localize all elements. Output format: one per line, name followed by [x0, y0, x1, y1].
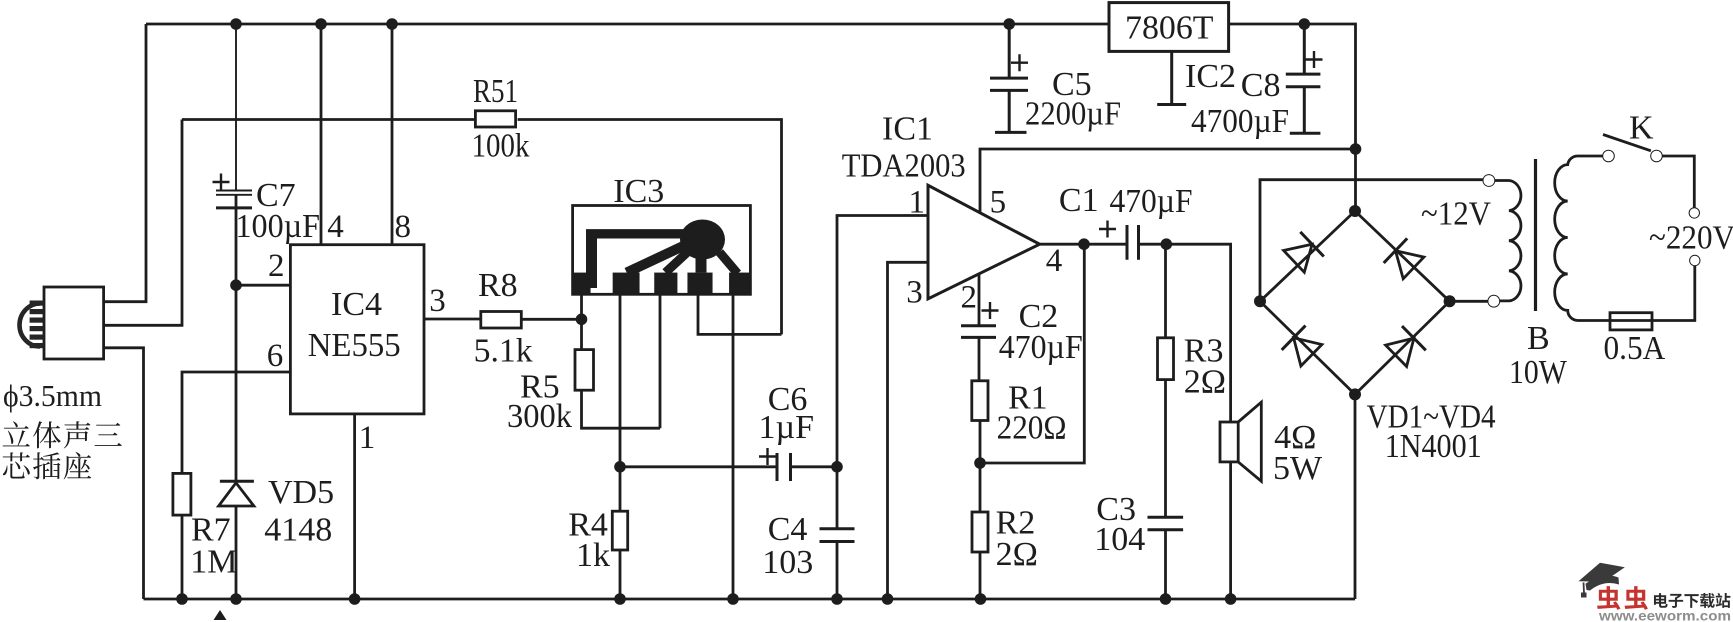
node pin8 bus junction: [386, 18, 398, 30]
wire pin6 to R7 top: [182, 372, 290, 473]
wire bridge edges: [1260, 211, 1450, 394]
label xin-cha-zuo (core socket): [3, 452, 30, 478]
wire +V top bus (right of 7806T) down to bridge + corner: [1229, 24, 1356, 211]
wire IC2 ground pin: [1157, 51, 1186, 104]
node R2 ground junction: [975, 593, 987, 605]
node output/feedback junction: [1078, 238, 1090, 250]
svg-text:103: 103: [762, 544, 813, 581]
svg-text:2200µF: 2200µF: [1025, 96, 1121, 133]
node pin2/C7/VD5 junction: [230, 279, 242, 291]
svg-text:2Ω: 2Ω: [996, 536, 1038, 573]
resistor R7 1M: [173, 473, 191, 515]
svg-text:www.eeworm.com: www.eeworm.com: [1598, 609, 1731, 622]
transformer B secondary winding: [1495, 181, 1521, 301]
svg-text:1k: 1k: [576, 537, 610, 574]
node C5 bus junction: [1003, 18, 1015, 30]
wire IC3 pin1 to R8 node: [580, 294, 583, 319]
node pin5 supply junction: [1350, 143, 1362, 155]
IC3 bonding trace left drop: [586, 230, 597, 288]
wire feedback link: [980, 244, 1084, 463]
C5 plus polarity mark: [1011, 54, 1028, 71]
IC3 pad 1: [574, 273, 591, 293]
svg-text:B: B: [1527, 320, 1550, 357]
watermark graduation cap: [1579, 563, 1625, 582]
transformer B primary winding: [1555, 156, 1610, 321]
wire IC3 pin4 bend to R51 drop: [698, 294, 782, 334]
resistor R3 2ohm: [1158, 338, 1174, 380]
svg-text:5.1k: 5.1k: [474, 333, 533, 370]
fuse 0.5A body: [1610, 313, 1652, 330]
node bridge right AC corner: [1444, 295, 1456, 307]
IC3 chip blob: [680, 220, 725, 260]
wire speaker to ground: [1229, 462, 1232, 599]
wire mains lower terminal to fuse: [1652, 266, 1695, 321]
svg-text:3: 3: [429, 283, 446, 319]
ground reference tick: [214, 610, 227, 620]
wire C4 to ground: [836, 542, 839, 600]
diode VD1 (left-top arm): [1284, 244, 1313, 272]
switch K terminal left: [1603, 150, 1615, 162]
svg-text:10W: 10W: [1509, 354, 1568, 391]
IC3 bonding trace to pad4: [696, 258, 707, 273]
resistor R2 2ohm: [972, 512, 988, 552]
wire pin3 to ground: [888, 262, 929, 599]
svg-text:300k: 300k: [507, 398, 572, 435]
wire pin3 to R8: [424, 318, 480, 321]
wire R5 bottom to pin3 link: [582, 390, 661, 428]
resistor R51 100k: [475, 111, 515, 127]
regulator IC2 7806T box: [1109, 3, 1229, 52]
svg-text:470µF: 470µF: [1110, 183, 1193, 220]
svg-text:C4: C4: [768, 511, 808, 548]
wire C1 to speaker drop: [1139, 244, 1231, 422]
wire pin2 stub: [236, 284, 290, 287]
svg-text:4700µF: 4700µF: [1191, 103, 1289, 140]
wire pin8 to +V bus: [391, 24, 394, 245]
node pin4 bus junction: [315, 18, 327, 30]
wire C6 left lead: [620, 465, 777, 468]
svg-text:~12V: ~12V: [1421, 195, 1491, 232]
audio jack J1 3.5mm socket body: [44, 287, 104, 359]
node C8 bus junction: [1299, 18, 1311, 30]
wire IC3 pin3 drop: [659, 294, 662, 428]
op IC4 NE555 timer box: [290, 245, 424, 414]
svg-text:1M: 1M: [190, 544, 237, 581]
svg-text:3: 3: [906, 275, 923, 311]
IC3 bonding trace to pad5: [720, 252, 738, 273]
wire bridge right to transformer secondary bottom: [1450, 300, 1488, 303]
svg-text:470µF: 470µF: [999, 329, 1083, 366]
svg-text:IC4: IC4: [331, 286, 382, 323]
transformer B secondary terminal top: [1483, 175, 1495, 187]
IC3 pad 5: [729, 273, 749, 293]
wire R4 to ground: [619, 550, 622, 599]
wire ground bus: [144, 598, 1356, 601]
wire R8 to IC3 pin1 node: [522, 318, 582, 321]
svg-text:TDA2003: TDA2003: [842, 148, 966, 185]
capacitor C8 4700uF electrolytic: [1286, 24, 1321, 133]
svg-text:6: 6: [267, 338, 284, 374]
svg-text:~220V: ~220V: [1649, 220, 1733, 257]
svg-text:IC2: IC2: [1185, 58, 1236, 95]
wire output pin4 to C1: [1040, 243, 1127, 246]
IC3 bonding trace to pad3: [666, 249, 691, 272]
node R1/R2/feedback junction: [974, 457, 986, 469]
svg-text:2: 2: [961, 280, 978, 316]
wire pin4 to +V bus: [320, 24, 323, 245]
watermark chongchong red: [1597, 586, 1620, 610]
node R7 ground junction: [176, 593, 188, 605]
speaker LS 4ohm 5W: [1220, 422, 1238, 462]
wire C3 to ground: [1164, 530, 1167, 599]
svg-text:1: 1: [909, 185, 926, 221]
svg-text:IC3: IC3: [613, 173, 664, 210]
wire bridge left to transformer secondary top: [1260, 180, 1483, 302]
node IC3 pin5 ground junction: [727, 593, 739, 605]
wire switch to mains upper terminal: [1662, 156, 1694, 208]
node bridge left AC corner: [1254, 295, 1266, 307]
svg-text:1µF: 1µF: [759, 409, 815, 446]
diode VD2 (right-top arm): [1396, 251, 1424, 279]
wire jack sleeve to ground: [104, 348, 144, 599]
wire R3 top lead: [1164, 244, 1167, 338]
wire C4 top lead: [836, 467, 839, 529]
C6 plus polarity mark: [759, 448, 776, 465]
node C3 ground junction: [1160, 593, 1172, 605]
C8 plus polarity mark: [1306, 51, 1323, 68]
node C6/C4/pin1 junction: [831, 461, 843, 473]
resistor R1 220ohm: [972, 381, 988, 421]
audio jack plug sleeve: [19, 304, 40, 347]
transformer B core: [1534, 159, 1537, 311]
wire +V top bus (left of 7806T): [146, 23, 1109, 26]
svg-text:100µF: 100µF: [236, 208, 321, 245]
C1 plus polarity mark: [1099, 221, 1116, 238]
IC3 bonding trace horizontal: [586, 229, 688, 238]
svg-text:2: 2: [268, 248, 285, 284]
wire R51 to IC3 pin4 drop: [518, 120, 782, 335]
svg-text:5: 5: [990, 185, 1007, 221]
wire R2 to ground: [979, 552, 982, 599]
node bridge bottom (-) corner: [1349, 388, 1361, 400]
C7 plus polarity mark: [213, 174, 230, 191]
switch K lever: [1603, 135, 1651, 151]
wire pin1 input from C6 node: [837, 216, 928, 467]
svg-text:2Ω: 2Ω: [1184, 364, 1226, 401]
svg-text:R51: R51: [473, 73, 518, 110]
capacitor C3 104: [1148, 517, 1184, 530]
node C6 left junction: [614, 461, 626, 473]
wire jack ring to oscillator rail riser: [104, 120, 182, 326]
wire C6 right lead: [791, 465, 838, 468]
svg-text:C1: C1: [1059, 182, 1099, 219]
wire C2 to R1: [978, 337, 981, 380]
node C1/R3 junction: [1161, 238, 1173, 250]
svg-text:ϕ3.5mm: ϕ3.5mm: [3, 378, 102, 413]
svg-text:4148: 4148: [264, 511, 332, 548]
C2 plus polarity mark: [982, 302, 999, 319]
switch K terminal right: [1651, 150, 1663, 162]
mains terminal lower circle: [1690, 255, 1700, 265]
wire R2 top lead: [979, 463, 982, 512]
svg-text:1: 1: [359, 420, 376, 456]
op IC3 music chip box: [573, 206, 751, 295]
IC3 pad 3: [654, 273, 677, 293]
svg-text:104: 104: [1094, 521, 1145, 558]
capacitor C7 100uF electrolytic: [216, 24, 252, 195]
wire jack tip to +V vertical riser: [104, 24, 146, 302]
node C4 ground junction: [831, 593, 843, 605]
svg-text:0.5A: 0.5A: [1604, 330, 1666, 367]
svg-text:1N4001: 1N4001: [1385, 428, 1482, 465]
capacitor C1 470uF plates: [1127, 225, 1139, 260]
wire IC3 pin5 to ground: [732, 294, 735, 599]
wire VD5 cathode riser: [235, 285, 238, 482]
resistor R8 5.1k: [481, 312, 522, 329]
mains terminal upper circle: [1689, 208, 1699, 218]
resistor R5 300k: [575, 350, 594, 391]
svg-text:220Ω: 220Ω: [997, 410, 1067, 447]
svg-text:IC1: IC1: [882, 111, 933, 148]
capacitor C4 103: [820, 529, 855, 542]
svg-text:100k: 100k: [472, 128, 530, 165]
capacitor C6 1uF plates: [777, 453, 791, 481]
svg-text:8: 8: [395, 209, 412, 245]
wire IC3 pin1 node through R5 chain: [580, 319, 583, 349]
wire pin2 to C2: [978, 274, 981, 326]
capacitor C5 2200uF electrolytic: [990, 24, 1028, 132]
svg-text:C8: C8: [1241, 67, 1281, 104]
wire oscillator supply rail to R51: [182, 118, 476, 121]
IC3 bonding trace to pad2: [627, 244, 688, 273]
IC3 pad 4: [688, 273, 713, 293]
transformer B secondary terminal bottom: [1488, 295, 1500, 307]
diode VD4 (right-bottom arm): [1386, 338, 1414, 366]
node speaker ground junction: [1225, 593, 1237, 605]
svg-text:R8: R8: [478, 267, 518, 304]
wire R1 to feedback node: [979, 421, 982, 464]
node R8/IC3pin1/R5 junction: [576, 314, 588, 326]
svg-text:7806T: 7806T: [1125, 10, 1214, 47]
node R4 ground junction: [614, 593, 626, 605]
node VD5 ground junction: [230, 593, 242, 605]
watermark dianzi xiazaizhan: [1654, 593, 1668, 608]
wire pin1 to ground: [353, 414, 356, 599]
svg-text:4: 4: [327, 209, 344, 245]
IC3 pad 2: [613, 273, 640, 293]
wire bridge bottom to ground: [1354, 394, 1357, 599]
svg-text:VD5: VD5: [268, 474, 334, 511]
resistor R4 1k: [612, 511, 627, 550]
node TDA pin3 ground junction: [882, 593, 894, 605]
diode VD3 (left-bottom arm): [1294, 338, 1322, 366]
capacitor C2 470uF plates: [961, 326, 996, 338]
op-amp IC1 TDA2003 triangle: [928, 185, 1040, 298]
wire IC3 pin2 drop to ground: [619, 294, 622, 511]
wire R7 to ground: [181, 515, 184, 599]
svg-text:4: 4: [1046, 243, 1063, 279]
diode VD5 1N4148: [220, 480, 254, 483]
svg-text:5W: 5W: [1273, 450, 1323, 487]
wire through fuse: [1610, 319, 1652, 322]
label li-ti-sheng-san (stereo three): [3, 421, 30, 446]
svg-text:NE555: NE555: [308, 327, 401, 364]
node pin1 ground junction: [349, 593, 361, 605]
wire pin5 supply riser: [980, 149, 1356, 213]
wire R3 to C3: [1164, 380, 1167, 518]
node C7 bus junction: [230, 18, 242, 30]
svg-text:K: K: [1629, 110, 1654, 147]
node bridge top (+) corner: [1349, 205, 1361, 217]
